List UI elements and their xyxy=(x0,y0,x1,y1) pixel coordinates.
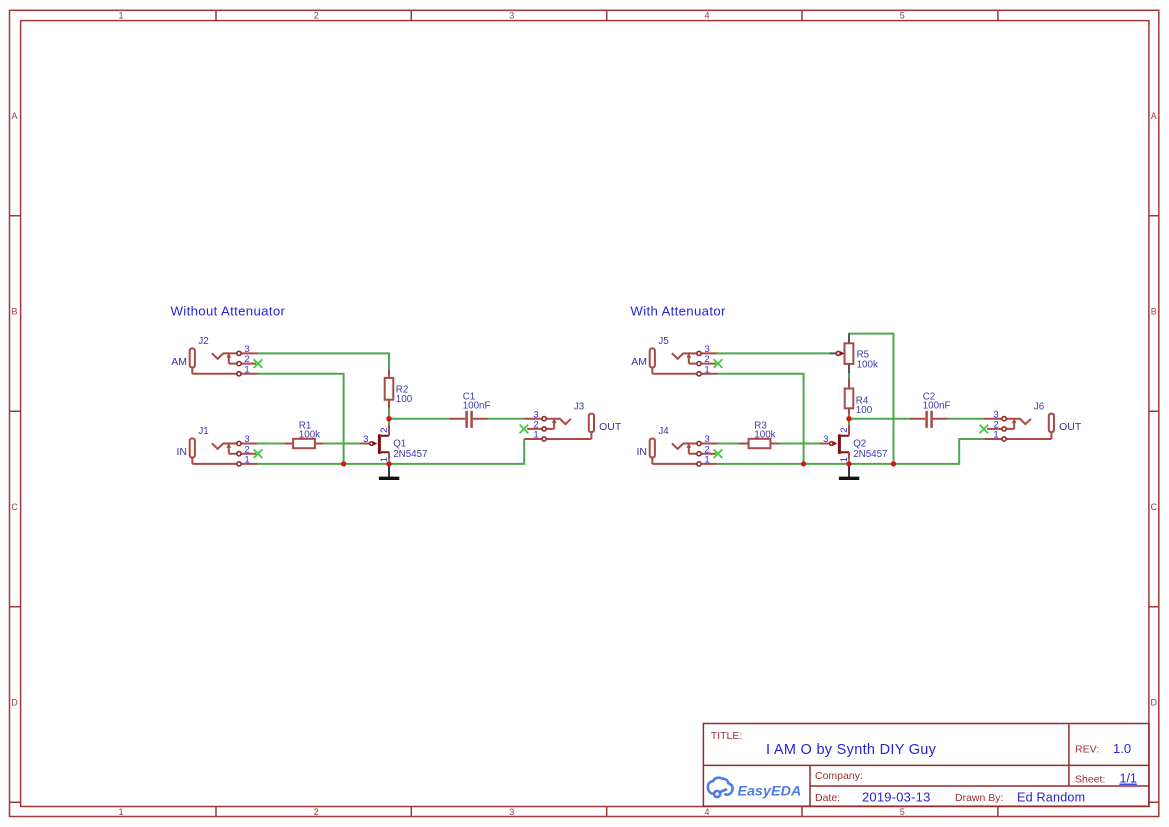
svg-text:TITLE:: TITLE: xyxy=(711,730,743,742)
svg-text:D: D xyxy=(11,698,18,708)
wire J4.3 to R3 xyxy=(718,443,739,445)
svg-text:1/1: 1/1 xyxy=(1120,772,1137,786)
svg-text:EasyEDA: EasyEDA xyxy=(738,783,802,799)
svg-text:100: 100 xyxy=(396,394,413,405)
svg-text:2: 2 xyxy=(379,427,390,432)
junction node J5.1/rail xyxy=(801,461,806,466)
svg-text:IN: IN xyxy=(637,446,648,458)
svg-text:2N5457: 2N5457 xyxy=(853,449,887,460)
wire Q2 drain to node xyxy=(848,419,850,425)
svg-text:2N5457: 2N5457 xyxy=(393,449,427,460)
capacitor C1 xyxy=(449,392,490,428)
svg-text:REV:: REV: xyxy=(1075,743,1099,755)
wire J2.3 to R2 top xyxy=(258,353,389,369)
junction node R4/Q2 drain xyxy=(846,416,851,421)
svg-text:2: 2 xyxy=(839,427,850,432)
wire J2.1 to ground rail xyxy=(258,374,344,464)
svg-text:J1: J1 xyxy=(198,426,208,437)
wire J5.1 to ground rail xyxy=(718,374,804,464)
connector J6 xyxy=(980,409,1054,441)
connector J2 xyxy=(190,344,263,376)
svg-text:5: 5 xyxy=(900,11,905,21)
svg-text:IN: IN xyxy=(177,446,188,458)
resistor R4 xyxy=(845,378,873,416)
svg-text:Drawn By:: Drawn By: xyxy=(955,792,1003,804)
svg-text:With Attenuator: With Attenuator xyxy=(630,303,726,318)
svg-text:3: 3 xyxy=(509,807,514,817)
svg-text:Company:: Company: xyxy=(815,770,863,782)
connector J1 xyxy=(190,434,263,466)
svg-text:C: C xyxy=(1151,502,1158,512)
svg-text:J5: J5 xyxy=(658,336,669,347)
svg-text:100k: 100k xyxy=(299,430,320,441)
wire Q2 source to rail xyxy=(848,459,850,464)
wire J5.3 to R5 wiper xyxy=(718,352,830,354)
svg-text:I AM O by Synth DIY Guy: I AM O by Synth DIY Guy xyxy=(766,742,937,758)
svg-text:4: 4 xyxy=(704,11,709,21)
junction node Q1 source/rail xyxy=(386,461,391,466)
resistor R1 xyxy=(284,420,323,448)
svg-text:100k: 100k xyxy=(857,359,878,370)
right ruler ticks xyxy=(1149,216,1159,803)
wire ground rail to J6.1 xyxy=(718,439,984,464)
wire R3 to Q2 gate xyxy=(779,443,820,445)
EasyEDA logo cloud xyxy=(708,778,733,797)
svg-text:100nF: 100nF xyxy=(463,400,491,411)
svg-text:Without Attenuator: Without Attenuator xyxy=(171,303,286,318)
title block rev/sheet divider xyxy=(1068,724,1070,787)
wire C2 to J6.3 xyxy=(948,418,985,420)
svg-text:Ed Random: Ed Random xyxy=(1017,790,1085,804)
title block logo cell divider xyxy=(809,765,811,806)
potentiometer R5 xyxy=(829,334,878,374)
wire C1 to J3.3 xyxy=(488,418,525,420)
title block border xyxy=(703,724,1149,807)
svg-text:C: C xyxy=(11,502,18,512)
wire R4 bottom to node xyxy=(848,415,850,419)
svg-text:Date:: Date: xyxy=(815,792,840,804)
svg-text:100k: 100k xyxy=(754,430,775,441)
resistor R3 xyxy=(739,420,779,448)
junction node R5 wire/rail xyxy=(891,461,896,466)
wire R1 to Q1 gate xyxy=(323,443,359,445)
svg-text:2: 2 xyxy=(314,11,319,21)
svg-text:4: 4 xyxy=(704,807,709,817)
svg-text:100: 100 xyxy=(856,405,873,416)
svg-text:3: 3 xyxy=(823,434,828,445)
svg-text:Sheet:: Sheet: xyxy=(1075,774,1105,786)
svg-text:100nF: 100nF xyxy=(923,400,951,411)
wire Q1 drain to node xyxy=(388,419,390,425)
svg-text:OUT: OUT xyxy=(599,421,622,433)
ground (right) xyxy=(839,464,859,478)
wire Q1 source to rail xyxy=(388,459,390,464)
wire R5 bottom to R4 top xyxy=(848,373,850,378)
title block row divider 1 xyxy=(703,764,1149,766)
transistor Q1 xyxy=(359,425,427,463)
wire node to C2 xyxy=(849,418,909,420)
title block row divider 2 xyxy=(810,785,1149,787)
svg-text:2: 2 xyxy=(314,807,319,817)
svg-text:3: 3 xyxy=(509,11,514,21)
wire ground rail to J3.1 xyxy=(258,439,524,464)
svg-text:J3: J3 xyxy=(574,401,585,412)
svg-text:5: 5 xyxy=(900,807,905,817)
bottom ruler ticks xyxy=(216,807,998,817)
svg-text:D: D xyxy=(1151,698,1158,708)
wire R2 bottom to node xyxy=(388,408,390,418)
svg-text:B: B xyxy=(11,307,17,317)
wire J1.3 to R1 xyxy=(258,443,284,445)
connector J5 xyxy=(650,344,723,376)
svg-text:B: B xyxy=(1151,307,1157,317)
svg-text:AM: AM xyxy=(631,356,647,368)
connector J3 xyxy=(520,409,594,441)
svg-text:AM: AM xyxy=(171,356,187,368)
resistor R2 xyxy=(385,369,413,408)
svg-text:J2: J2 xyxy=(198,336,208,347)
svg-text:3: 3 xyxy=(363,434,368,445)
svg-text:1.0: 1.0 xyxy=(1113,741,1131,756)
left ruler ticks xyxy=(10,216,21,803)
top ruler ticks xyxy=(216,10,998,20)
junction node R2/Q1 drain xyxy=(386,416,391,421)
svg-text:2019-03-13: 2019-03-13 xyxy=(862,789,931,804)
svg-text:1: 1 xyxy=(118,11,123,21)
svg-text:J4: J4 xyxy=(658,426,669,437)
connector J4 xyxy=(650,434,723,466)
capacitor C2 xyxy=(909,392,950,428)
svg-text:J6: J6 xyxy=(1034,401,1045,412)
wire node to C1 xyxy=(389,418,449,420)
junction node Q2 source/rail xyxy=(846,461,851,466)
junction node J2.1/rail xyxy=(341,461,346,466)
wire R5 top to ground rail xyxy=(849,334,894,464)
svg-text:OUT: OUT xyxy=(1059,421,1082,433)
svg-text:1: 1 xyxy=(118,807,123,817)
svg-text:A: A xyxy=(1151,111,1157,121)
transistor Q2 xyxy=(819,425,887,463)
ground (left) xyxy=(379,464,399,478)
svg-text:A: A xyxy=(11,111,17,121)
